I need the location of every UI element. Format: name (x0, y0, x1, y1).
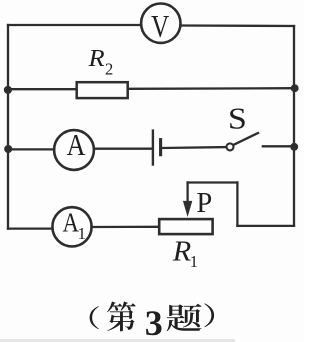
svg-text:1: 1 (190, 252, 198, 271)
svg-text:2: 2 (105, 59, 113, 78)
rheostat R1 box (159, 219, 212, 234)
wire slider top horizontal (188, 181, 238, 183)
slider P arrow stem (186, 183, 188, 204)
wire top-left horizontal (8, 24, 141, 26)
junction node right switch row (290, 143, 298, 151)
ammeter U-A1 circle (52, 207, 91, 246)
svg-text:1: 1 (78, 224, 87, 243)
svg-text:A: A (67, 128, 86, 163)
battery cell short plate (159, 140, 162, 155)
caption close paren (204, 303, 214, 327)
wire R2 row left (8, 88, 76, 90)
wire R2 row right (129, 87, 294, 90)
battery cell long plate (152, 131, 154, 165)
wire A1 to rheostat (92, 226, 160, 228)
resistor R2 box (77, 82, 128, 98)
wire A1 row left (8, 227, 53, 229)
caption char di4 (107, 302, 136, 332)
wire A to battery (94, 148, 152, 150)
scan shadow bottom edge (0, 339, 235, 342)
voltmeter U-V circle (141, 4, 180, 43)
wire right rail vertical (293, 26, 295, 226)
junction node right R2 row (291, 84, 299, 92)
svg-text:A: A (63, 209, 79, 238)
svg-text:R: R (172, 236, 192, 267)
wire left rail vertical (7, 25, 9, 229)
svg-text:P: P (196, 188, 212, 219)
wire slider right vertical (236, 183, 238, 226)
svg-text:S: S (228, 102, 247, 136)
switch S pivot contact (227, 143, 234, 150)
svg-text:R: R (87, 46, 104, 72)
junction node left R2 row (4, 86, 12, 94)
caption open paren (90, 306, 99, 329)
wire top-right horizontal (181, 24, 294, 27)
wire switch to right rail (263, 145, 294, 147)
svg-text:V: V (151, 9, 169, 45)
wire rheostat to right rail bottom (237, 225, 294, 227)
caption char ti2 (167, 304, 202, 332)
svg-text:3: 3 (145, 303, 163, 342)
wire A row left (8, 148, 54, 150)
switch S lever (234, 133, 258, 145)
ammeter U-A circle (54, 130, 94, 170)
wire battery to switch (162, 146, 226, 149)
junction node left A row (4, 145, 12, 153)
slider P arrowhead (183, 201, 192, 217)
